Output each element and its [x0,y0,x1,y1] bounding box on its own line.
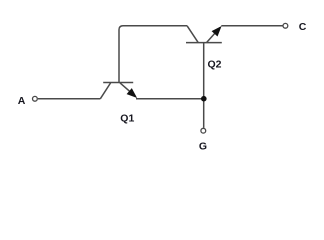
svg-text:G: G [199,140,207,152]
transistor Q1 emitter arrowhead [127,88,138,98]
transistor Q2 emitter arrowhead [212,26,222,37]
wire A to Q1 collector [38,98,100,100]
svg-text:Q2: Q2 [207,58,221,70]
transistor Q2 emitter lead [207,28,221,43]
svg-text:C: C [299,21,307,33]
transistor Q2 collector lead [187,26,198,43]
wire Q2 emitter to terminal C [221,25,282,27]
terminal G [201,128,206,133]
terminal C [283,23,288,28]
transistor Q1 collector lead [100,83,110,99]
terminal A [33,96,38,101]
wire Q1 base to top rail [119,26,187,83]
wire Q2 base to node and terminal G [203,43,205,128]
svg-text:Q1: Q1 [120,112,134,124]
node junction dot [201,96,207,102]
transistor Q1 base bar [103,82,133,84]
wire Q1 emitter to node [136,98,204,100]
transistor Q1 emitter lead [120,83,136,97]
transistor Q2 base bar [186,42,222,44]
svg-text:A: A [18,95,26,107]
